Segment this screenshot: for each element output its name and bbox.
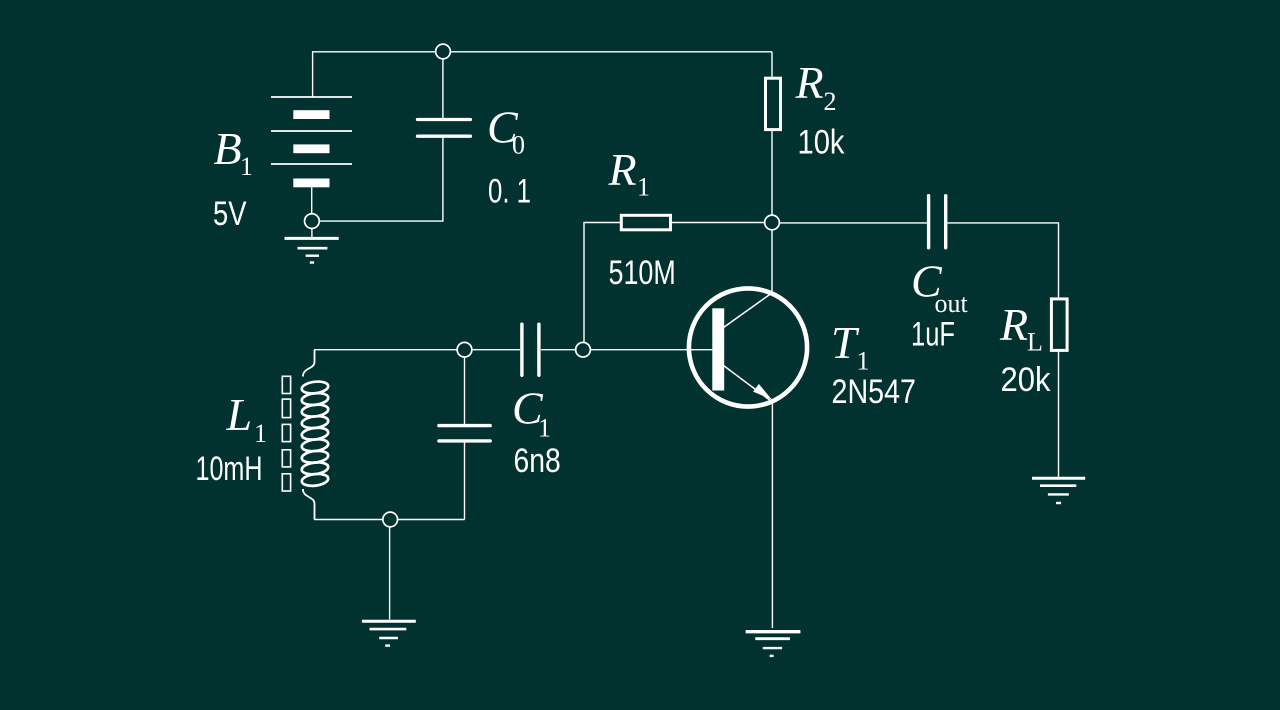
wire collector node to Cout: [779, 222, 927, 224]
wire top rail: [313, 52, 772, 97]
node tank bottom: [383, 512, 398, 527]
wire tank bottom rail: [314, 519, 464, 521]
node battery minus: [305, 214, 320, 229]
wire base: [591, 349, 713, 351]
battery B1: [271, 97, 352, 187]
wire tank bottom node to ground: [389, 527, 391, 619]
svg-text:1: 1: [637, 173, 650, 202]
svg-text:5V: 5V: [213, 195, 247, 233]
wire emitter vertical: [771, 403, 773, 629]
capacitor C1: [522, 324, 539, 375]
inductor core dashes: [282, 376, 290, 491]
svg-text:L: L: [1027, 328, 1043, 357]
wire RL to ground: [1058, 352, 1060, 477]
tank capacitor: [439, 426, 490, 441]
svg-text:1: 1: [857, 347, 870, 376]
wire tank cap to bottom rail: [464, 443, 466, 520]
wire collector vertical: [771, 230, 773, 293]
svg-text:0: 0: [512, 131, 525, 160]
transistor T1: [689, 288, 807, 406]
svg-text:1: 1: [538, 414, 551, 443]
svg-text:R: R: [999, 299, 1028, 350]
node B base: [576, 342, 591, 357]
svg-text:20k: 20k: [1001, 361, 1052, 399]
node A tank top: [457, 342, 472, 357]
ground tank: [362, 621, 416, 645]
ground battery: [285, 238, 339, 262]
capacitor Cout: [929, 196, 946, 248]
svg-text:B: B: [214, 123, 242, 174]
wire R1 left leg: [584, 223, 620, 342]
svg-text:R: R: [608, 144, 637, 195]
wire C0 top: [442, 59, 444, 118]
node top rail: [436, 44, 451, 59]
wire Cout to RL: [947, 223, 1058, 298]
svg-text:out: out: [935, 289, 969, 318]
inductor L1: [301, 350, 329, 520]
svg-text:R: R: [795, 57, 824, 108]
wire battery node to ground: [311, 229, 313, 238]
svg-text:0. 1: 0. 1: [488, 173, 531, 211]
svg-text:10mH: 10mH: [196, 450, 263, 488]
svg-text:6n8: 6n8: [514, 442, 561, 480]
node collector: [765, 215, 780, 230]
svg-text:1: 1: [240, 152, 253, 181]
wire node A to tank cap: [464, 358, 466, 424]
svg-text:2N547: 2N547: [832, 373, 917, 411]
wire node A to C1: [472, 349, 520, 351]
wire tank top to node A: [314, 349, 457, 351]
svg-text:2: 2: [824, 87, 837, 116]
resistor RL: [1051, 299, 1067, 351]
ground emitter: [746, 632, 801, 656]
wire R2 bottom to collector node: [771, 131, 773, 215]
wire R2 top drop: [771, 52, 773, 77]
wire R1 right to collector node: [672, 222, 765, 224]
wire C1 to node B: [541, 349, 575, 351]
resistor R2: [766, 78, 781, 129]
capacitor C0: [418, 120, 471, 137]
ground RL: [1032, 478, 1085, 503]
resistor R1: [621, 215, 670, 230]
svg-text:1uF: 1uF: [911, 316, 955, 354]
svg-text:1: 1: [254, 419, 267, 448]
svg-text:510M: 510M: [609, 254, 676, 292]
svg-text:L: L: [226, 389, 253, 440]
wire battery to bottom node: [311, 187, 313, 213]
wire battery node to C0 bottom: [319, 138, 443, 221]
svg-text:10k: 10k: [798, 124, 846, 162]
